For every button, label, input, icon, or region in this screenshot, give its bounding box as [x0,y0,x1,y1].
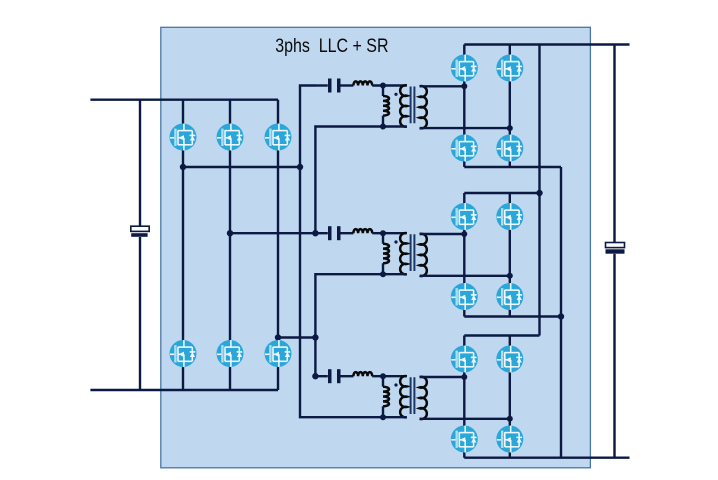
svg-text:3phs LLC + SR: 3phs LLC + SR [275,34,388,56]
